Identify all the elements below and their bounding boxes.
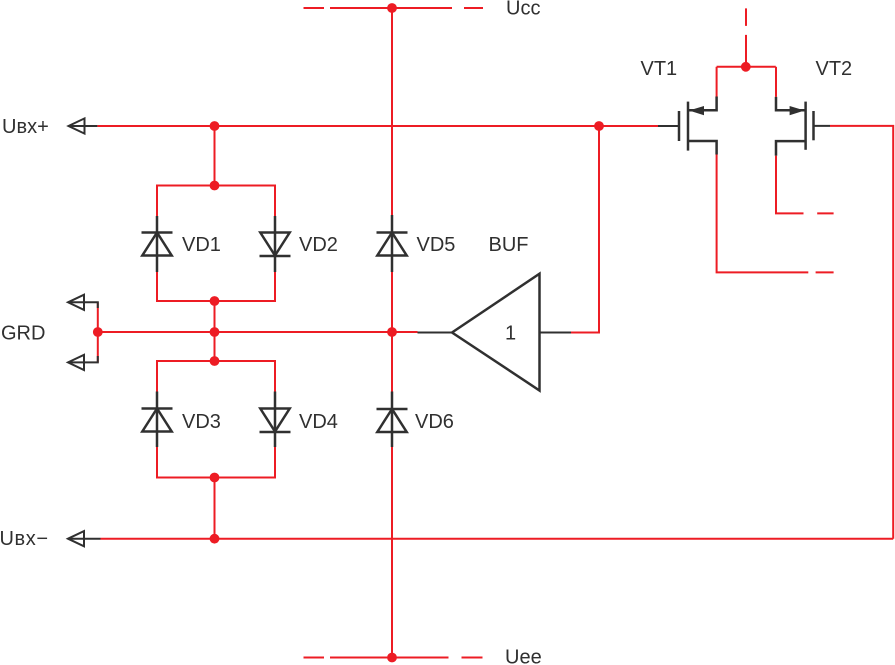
svg-text:BUF: BUF bbox=[489, 234, 529, 256]
svg-text:VD1: VD1 bbox=[182, 234, 221, 256]
svg-text:Uвх−: Uвх− bbox=[0, 528, 49, 550]
svg-text:Uee: Uee bbox=[505, 647, 542, 665]
svg-text:1: 1 bbox=[505, 323, 516, 345]
svg-text:Ucc: Ucc bbox=[506, 0, 540, 20]
svg-text:GRD: GRD bbox=[1, 323, 45, 345]
svg-text:VD2: VD2 bbox=[299, 234, 338, 256]
svg-text:VD6: VD6 bbox=[415, 411, 454, 433]
svg-text:VD5: VD5 bbox=[417, 234, 456, 256]
svg-text:VD4: VD4 bbox=[299, 411, 338, 433]
svg-text:VT1: VT1 bbox=[641, 58, 678, 80]
svg-text:VT2: VT2 bbox=[816, 58, 853, 80]
svg-text:Uвх+: Uвх+ bbox=[2, 116, 49, 138]
svg-text:VD3: VD3 bbox=[182, 411, 221, 433]
